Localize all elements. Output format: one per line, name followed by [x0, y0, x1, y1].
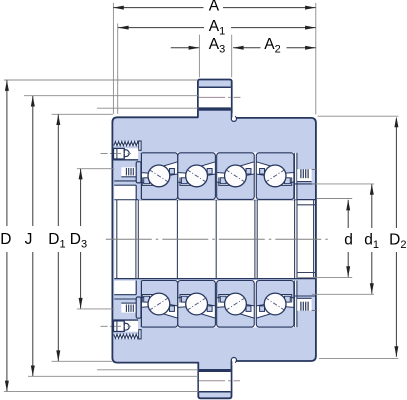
- bore vertical lines: [117, 200, 314, 279]
- dimension A1 arrows: [118, 26, 129, 30]
- bottom boss lubrication hole: [199, 369, 231, 392]
- dimension A line: [113, 7, 316, 9]
- top boss lubrication hole: [199, 87, 231, 111]
- shaft bore band (white): [114, 199, 314, 278]
- right sleeve inner lines: [297, 204, 316, 206]
- dimension A1 line: [118, 27, 316, 29]
- extension line: A3/A2 boundary vertical: [231, 35, 233, 78]
- bearing row backing strip: [140, 152, 294, 199]
- extension line: A1 left vertical: [117, 24, 119, 114]
- dimension A2 arrows: [233, 46, 244, 50]
- extension line: D2 top: [318, 115, 399, 117]
- dimension J line: [32, 96, 34, 376]
- dimension J arrows: [31, 96, 35, 107]
- groove notch right of bottom boss: [231, 358, 236, 366]
- dimension d1 line: [371, 184, 373, 294]
- left grease fitting: thread zigzag: [114, 141, 141, 150]
- bearing row: unit 1: [140, 153, 178, 200]
- dimension A2 line: [233, 47, 316, 49]
- shaft axis centerline: [106, 238, 331, 240]
- extension line: boss duct bottom, bottom left: [97, 369, 198, 371]
- left grease fitting: hole and nipple: [101, 148, 139, 160]
- dimension d line: [347, 200, 349, 277]
- left cover step line: [114, 180, 136, 182]
- bearing row: unit 2: [178, 153, 216, 200]
- svg-text:J: J: [25, 231, 33, 248]
- extension line: D1 bottom: [52, 360, 113, 362]
- extension line: d1 top: [312, 183, 374, 185]
- extension line: D top: [4, 79, 198, 81]
- right labyrinth seal comb: [297, 169, 316, 181]
- bore bottom boundary: [114, 278, 315, 280]
- dimension D arrows: [5, 80, 9, 91]
- dimension d arrows: [346, 200, 350, 211]
- top lube centerline (pink dash-dot): [199, 96, 241, 98]
- bearing row: unit 4 (mirrored): [256, 153, 294, 200]
- extension line: D3 top: [77, 168, 114, 170]
- extension line: D2 bottom: [319, 357, 398, 359]
- dimension A3 arrow line: [171, 47, 199, 49]
- dimension D3 arrows: [79, 169, 83, 180]
- dimension A arrows: [113, 6, 124, 10]
- extension line: d1 bottom: [312, 293, 374, 295]
- bearing row: unit 3: [217, 153, 255, 200]
- svg-text:A: A: [209, 0, 220, 15]
- extension line: A left vertical: [112, 3, 114, 114]
- dimension D2 line: [395, 119, 397, 357]
- lower half details (mirror of upper half): [101, 280, 316, 339]
- housing patch left of unit 1: [138, 152, 141, 199]
- bore top boundary: [114, 199, 315, 201]
- dimension D1 arrows: [56, 114, 60, 125]
- extension line: J bottom: [28, 375, 198, 377]
- extension line: J top: [24, 95, 198, 97]
- svg-text:D: D: [0, 231, 11, 248]
- dimension D2 arrows: [394, 117, 398, 128]
- extension line: D bottom: [4, 390, 198, 392]
- extension line: boss duct bottom, top left: [97, 107, 198, 109]
- extension line: d top: [317, 198, 352, 200]
- cartridge right separation slit: [295, 153, 297, 200]
- groove notch right of top boss: [231, 113, 236, 121]
- upper half details (fitting, flange, seals, bearing row): [101, 141, 316, 200]
- extension line: D3 bottom: [77, 308, 114, 310]
- dimension D3 line: [80, 169, 82, 309]
- left recess: [114, 185, 136, 199]
- extension line: A3 left vertical: [198, 35, 200, 78]
- svg-text:d: d: [344, 232, 353, 249]
- left seal comb: [121, 167, 137, 177]
- bottom lube centerline (pink dash-dot): [199, 380, 240, 382]
- clamp flange bar: [136, 162, 141, 183]
- extension line: D1 top: [52, 113, 113, 115]
- dimension D1 line: [57, 114, 59, 361]
- dimension D line: [6, 80, 8, 391]
- extension line: A/A1/A2 right vertical: [315, 3, 317, 115]
- extension line: d bottom: [298, 277, 352, 279]
- housing body with top and bottom lubrication bosses: [112, 80, 316, 399]
- right section step line: [295, 183, 316, 185]
- dimension d1 arrows: [370, 184, 374, 195]
